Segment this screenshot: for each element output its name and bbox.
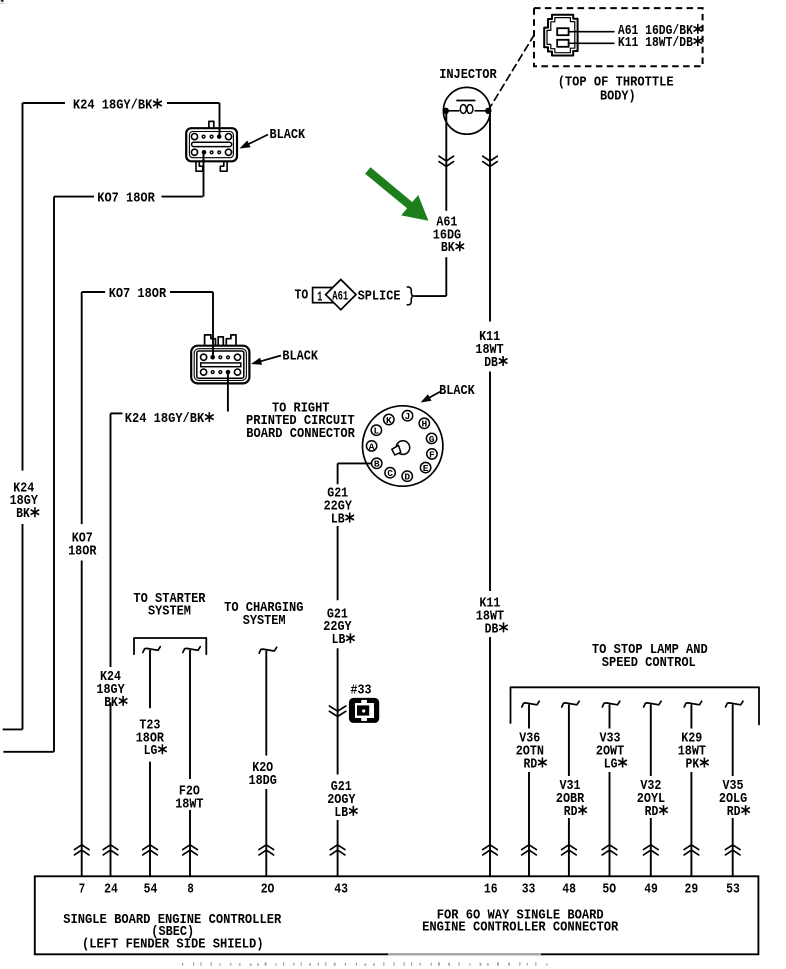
svg-text:ENGINE CONTROLLER CONNECTOR: ENGINE CONTROLLER CONNECTOR — [422, 920, 619, 936]
svg-text:L: L — [374, 426, 380, 437]
svg-text:1: 1 — [317, 291, 322, 306]
svg-text:J: J — [405, 411, 411, 422]
svg-text:33: 33 — [522, 882, 536, 898]
svg-text:24: 24 — [104, 882, 118, 898]
svg-text:DB: DB — [484, 355, 498, 371]
svg-text:#33: #33 — [351, 682, 372, 698]
svg-text:C: C — [387, 468, 393, 479]
svg-text:18OR: 18OR — [68, 543, 97, 559]
svg-text:TO: TO — [295, 288, 309, 304]
svg-text:RD: RD — [727, 804, 741, 820]
svg-text:D: D — [404, 472, 410, 483]
svg-text:SYSTEM: SYSTEM — [243, 613, 286, 629]
svg-text:RD: RD — [524, 756, 538, 772]
svg-text:A61: A61 — [332, 289, 348, 304]
svg-text:G: G — [429, 434, 435, 445]
svg-text:F: F — [429, 449, 435, 460]
svg-text:(LEFT FENDER SIDE SHIELD): (LEFT FENDER SIDE SHIELD) — [82, 936, 264, 952]
svg-text:SPEED CONTROL: SPEED CONTROL — [602, 655, 696, 671]
svg-text:54: 54 — [144, 882, 158, 898]
svg-text:18DG: 18DG — [249, 773, 277, 789]
svg-text:LB: LB — [332, 632, 346, 648]
svg-text:H: H — [421, 419, 427, 430]
svg-text:8: 8 — [187, 882, 193, 898]
svg-text:7: 7 — [79, 882, 85, 898]
svg-text:18WT: 18WT — [175, 796, 204, 812]
svg-text:49: 49 — [644, 882, 658, 898]
svg-text:LG: LG — [144, 743, 158, 759]
svg-text:K24 18GY/BK: K24 18GY/BK — [125, 411, 205, 427]
svg-text:K: K — [386, 415, 392, 426]
svg-text:BK: BK — [441, 240, 455, 256]
svg-text:SYSTEM: SYSTEM — [148, 604, 191, 620]
svg-text:RD: RD — [564, 804, 578, 820]
svg-text:SPLICE: SPLICE — [358, 289, 401, 305]
svg-text:BLACK: BLACK — [270, 127, 306, 143]
svg-text:INJECTOR: INJECTOR — [439, 67, 497, 83]
svg-text:LB: LB — [331, 511, 345, 527]
svg-text:48: 48 — [562, 882, 576, 898]
svg-text:DB: DB — [485, 621, 499, 637]
svg-text:29: 29 — [685, 882, 699, 898]
svg-text:16: 16 — [484, 882, 498, 898]
svg-text:5O: 5O — [602, 882, 616, 898]
svg-text:E: E — [423, 463, 429, 474]
svg-text:LG: LG — [604, 756, 618, 772]
svg-text:K24 18GY/BK: K24 18GY/BK — [73, 97, 153, 113]
svg-text:PK: PK — [686, 756, 700, 772]
svg-text:2O: 2O — [261, 882, 275, 898]
svg-text:53: 53 — [726, 882, 740, 898]
svg-text:BOARD CONNECTOR: BOARD CONNECTOR — [246, 426, 355, 442]
svg-text:BK: BK — [104, 695, 118, 711]
svg-text:KO7 18OR: KO7 18OR — [97, 191, 155, 207]
svg-text:BK: BK — [16, 506, 30, 522]
svg-text:RD: RD — [645, 804, 659, 820]
svg-text:BODY): BODY) — [600, 88, 636, 104]
svg-text:43: 43 — [334, 882, 348, 898]
svg-text:LB: LB — [334, 805, 348, 821]
svg-text:B: B — [374, 459, 380, 470]
svg-text:A: A — [369, 441, 375, 452]
svg-text:BLACK: BLACK — [439, 383, 475, 399]
svg-text:K11 18WT/DB: K11 18WT/DB — [618, 35, 693, 51]
svg-text:BLACK: BLACK — [282, 348, 318, 364]
svg-text:KO7 18OR: KO7 18OR — [109, 286, 167, 302]
